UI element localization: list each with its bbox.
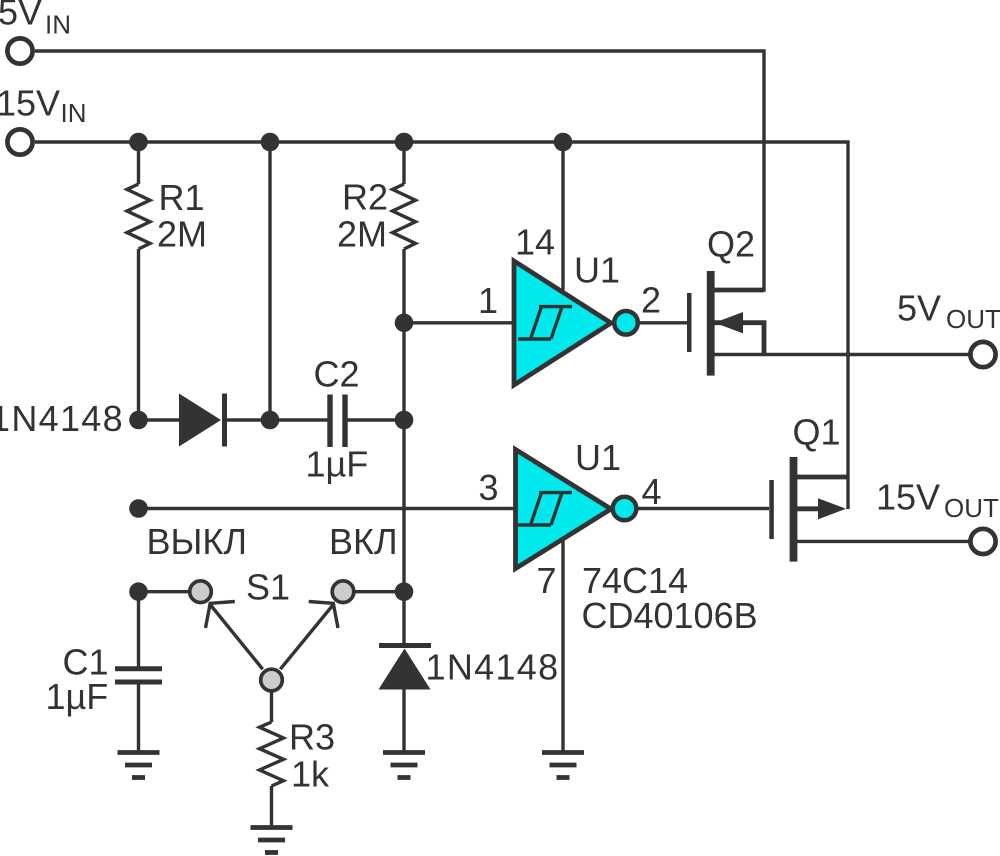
wire rail to R1 (137, 142, 140, 184)
hysteresis symbol gate B (518, 493, 572, 525)
wire pole to R3 (270, 692, 273, 722)
svg-text:C2: C2 (314, 354, 360, 395)
svg-text:5V: 5V (897, 288, 941, 329)
Q2 body stub with arrow (714, 323, 764, 355)
resistor R3 (260, 722, 284, 786)
node pin1 junction (395, 314, 414, 333)
wire C2 to R2 branch (345, 418, 404, 421)
switch S1 pole (261, 669, 283, 691)
Q1 channel bar (790, 457, 798, 562)
svg-text:1k: 1k (291, 754, 330, 795)
Q2 gate bar (687, 293, 692, 352)
ground D2 (383, 753, 425, 778)
svg-text:OUT: OUT (946, 304, 1000, 334)
node switch row right (395, 582, 414, 601)
wire pin 2 to Q2 gate (638, 321, 687, 324)
Q2 channel bar (707, 271, 715, 376)
wire mid node to C2 (270, 418, 328, 421)
node diode row mid (261, 411, 280, 430)
ground C1 (118, 753, 160, 778)
Q2 source stub to 5VOUT (714, 353, 969, 356)
wire cathode D1 to mid node (225, 418, 271, 421)
resistor R2 (393, 184, 416, 249)
ground R3 (251, 828, 293, 853)
switch S1 throw line right with arrow (280, 602, 338, 670)
diode D2 cathode bar (379, 643, 431, 648)
switch S1 right contact (332, 581, 354, 603)
svg-text:1µF: 1µF (306, 444, 369, 485)
terminal 5VOUT (970, 342, 995, 367)
Q1 source stub to 15VOUT (797, 540, 969, 543)
svg-text:15V: 15V (876, 477, 940, 518)
svg-text:1N4148: 1N4148 (426, 647, 560, 688)
op-amp U1 gate A (schmitt inverter) (514, 261, 611, 385)
wire pin 4 to Q1 gate (637, 507, 770, 510)
wire D2 to ground (402, 689, 405, 753)
wire right contact to branch (354, 590, 404, 593)
wire anode D1 (139, 418, 181, 421)
Q1 body arrow head (818, 498, 846, 519)
diode D1 1N4148 (179, 394, 221, 447)
svg-text:1: 1 (478, 280, 498, 321)
svg-text:Q1: Q1 (793, 412, 841, 453)
Q2 body arrow head (715, 312, 743, 333)
node rail-mid (261, 133, 280, 152)
Q1 body stub (797, 506, 824, 511)
wire pin 3 (139, 507, 515, 510)
node switch row left (129, 582, 148, 601)
node diode row right (395, 411, 414, 430)
node diode row left (129, 411, 148, 430)
diode D1 cathode bar (222, 394, 227, 447)
output bubble gate B (613, 497, 637, 521)
svg-text:IN: IN (45, 10, 71, 40)
op-amp U1 gate B (schmitt inverter) (516, 450, 612, 569)
terminal 15VOUT (970, 529, 995, 554)
svg-text:1N4148: 1N4148 (0, 398, 124, 439)
svg-text:15V: 15V (0, 83, 60, 124)
svg-text:2M: 2M (337, 214, 387, 255)
wire switch row to D2 (402, 592, 405, 647)
svg-text:2: 2 (641, 280, 661, 321)
svg-text:IN: IN (61, 98, 87, 128)
svg-text:S1: S1 (246, 567, 290, 608)
capacitor C2 (330, 395, 345, 448)
Q1 drain stub (797, 475, 848, 480)
svg-text:2M: 2M (157, 214, 207, 255)
node rail-R2 (395, 133, 414, 152)
wire rail to R2 (402, 142, 405, 184)
wire pin 14 (561, 142, 564, 290)
diode D2 1N4148 (379, 649, 431, 690)
wire pin 1 (404, 321, 513, 324)
node rail-pin14 (554, 133, 573, 152)
wire 15Vin rail to Q1 drain (35, 142, 848, 509)
switch S1 throw line left with arrow (206, 602, 263, 670)
svg-text:4: 4 (642, 471, 662, 512)
svg-text:Q2: Q2 (707, 224, 755, 265)
wire left branch to C1 (137, 592, 140, 667)
wire mid branch (268, 142, 271, 420)
wire to left contact (139, 590, 191, 593)
output bubble gate A (614, 311, 638, 335)
node pin3 junction (129, 499, 148, 518)
svg-text:1µF: 1µF (46, 676, 109, 717)
svg-text:14: 14 (515, 222, 555, 263)
node rail-R1 (129, 133, 148, 152)
wire 5Vin rail to Q2 drain (35, 51, 764, 290)
svg-text:7: 7 (537, 560, 557, 601)
Q2 drain stub (714, 288, 764, 293)
wire pin 7 (561, 539, 564, 753)
wire R2 down through pin1 node and diode row to switch row (402, 249, 405, 592)
hysteresis symbol gate A (518, 307, 572, 339)
svg-text:R3: R3 (289, 717, 335, 758)
resistor R1 (127, 184, 150, 249)
svg-text:CD40106B: CD40106B (582, 595, 758, 636)
svg-text:3: 3 (479, 467, 499, 508)
svg-text:U1: U1 (575, 437, 621, 478)
terminal 15VIN (7, 129, 32, 154)
wire C1 to ground (137, 685, 140, 754)
transistor Q1 (769, 457, 968, 562)
switch S1 left contact (190, 581, 212, 603)
svg-text:5V: 5V (0, 0, 42, 33)
svg-text:R1: R1 (159, 177, 205, 218)
transistor Q2 (687, 271, 969, 376)
svg-text:OUT: OUT (944, 493, 999, 523)
terminal 5VIN (7, 38, 32, 63)
svg-text:ВКЛ: ВКЛ (329, 521, 398, 562)
capacitor C1 (115, 669, 162, 682)
svg-text:U1: U1 (574, 250, 620, 291)
wire R1 to diode row (137, 249, 140, 420)
ground pin 7 (542, 753, 584, 778)
svg-text:ВЫКЛ: ВЫКЛ (147, 521, 247, 562)
svg-text:R2: R2 (342, 177, 388, 218)
Q1 gate bar (769, 480, 774, 539)
wire R3 to ground (270, 786, 273, 828)
